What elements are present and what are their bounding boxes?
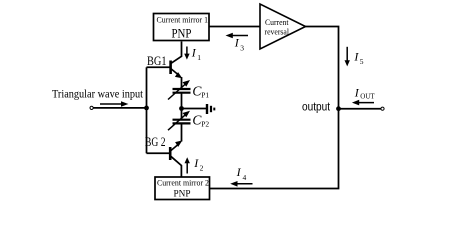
wire: CP1 to mid node <box>181 93 183 120</box>
svg-text:Current mirror 1: Current mirror 1 <box>157 16 209 25</box>
triangle: current reversal <box>260 4 306 49</box>
svg-text:2: 2 <box>200 164 204 173</box>
node: input junction dot <box>144 106 149 111</box>
arrow: input direction <box>100 101 129 107</box>
svg-text:OUT: OUT <box>360 92 375 100</box>
svg-text:3: 3 <box>240 43 244 52</box>
svg-text:Current mirror 2: Current mirror 2 <box>157 178 209 188</box>
arrow I3 (left) <box>226 33 249 39</box>
svg-text:Current: Current <box>265 17 289 27</box>
input terminal open circle <box>90 106 93 109</box>
arrow I4 (left) <box>230 181 252 187</box>
svg-text:P2: P2 <box>201 119 209 128</box>
arrow IOUT (left) <box>352 100 374 106</box>
node: output junction dot <box>336 106 341 111</box>
svg-text:BG 2: BG 2 <box>145 135 166 149</box>
wire: BG2 collector to current mirror 2 <box>171 156 182 177</box>
wire: triangular wave input horizontal <box>93 107 147 109</box>
wire: mid node to ground <box>182 108 207 110</box>
svg-text:BG1: BG1 <box>147 54 167 68</box>
svg-text:4: 4 <box>243 173 247 182</box>
svg-text:reversal: reversal <box>265 27 290 37</box>
svg-text:1: 1 <box>197 53 201 62</box>
svg-text:Triangular wave input: Triangular wave input <box>52 87 144 101</box>
wire: CP2 to BG2 emitter <box>181 123 183 141</box>
wire: triangle output to right corner <box>210 27 339 189</box>
svg-text:I: I <box>353 49 359 63</box>
wire: box1 top to current mirror 1 from box right to triangle <box>209 26 260 28</box>
wire: BG1 emitter down to CP1 <box>181 77 183 89</box>
svg-text:P1: P1 <box>201 90 209 99</box>
node: capacitor mid junction dot <box>179 106 184 111</box>
box: current mirror 2 <box>155 177 210 200</box>
arrow I5 (down) <box>345 47 350 67</box>
output terminal open circle <box>381 107 384 110</box>
wire: output tap <box>339 108 382 110</box>
svg-text:I: I <box>234 36 240 50</box>
box: current mirror 1 <box>154 14 210 41</box>
wire: left base vertical <box>146 67 148 153</box>
svg-text:5: 5 <box>360 57 364 66</box>
capacitor CP1 (variable) <box>168 80 191 100</box>
svg-text:PNP: PNP <box>172 27 192 41</box>
svg-text:I: I <box>193 156 199 170</box>
svg-text:I: I <box>191 45 197 59</box>
svg-text:output: output <box>302 102 331 114</box>
transistor BG1 <box>171 61 183 79</box>
wire: BG2 base lead <box>147 152 170 154</box>
svg-text:PNP: PNP <box>174 190 191 200</box>
wire: BG1 collector to current mirror 1 <box>171 42 182 64</box>
svg-text:I: I <box>354 86 360 100</box>
svg-text:I: I <box>236 165 242 179</box>
capacitor CP2 (variable) <box>168 111 191 131</box>
arrow I2 (up) <box>185 157 190 173</box>
ground symbol <box>207 104 214 114</box>
arrow I1 (down) <box>184 47 189 60</box>
wire: BG1 base lead <box>147 66 170 68</box>
transistor BG2 <box>170 140 182 160</box>
